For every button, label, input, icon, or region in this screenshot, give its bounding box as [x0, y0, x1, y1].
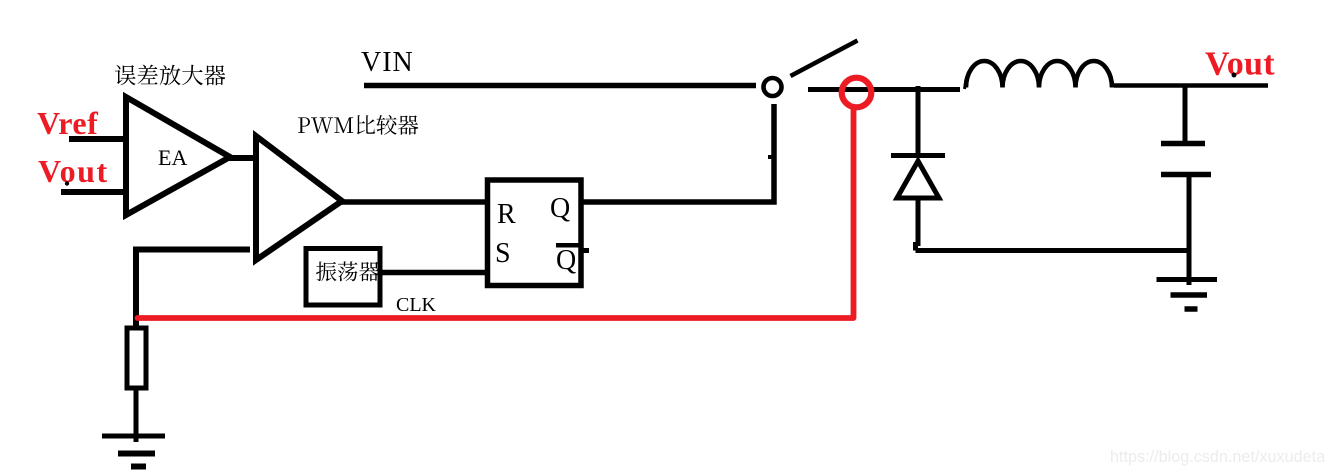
svg-text:R: R: [497, 199, 516, 230]
svg-text:Q: Q: [556, 245, 576, 276]
switch pole node (circle): [764, 78, 782, 96]
oscillator box 振荡器: [306, 249, 380, 306]
svg-text:S: S: [495, 238, 511, 269]
node sense point (red circle): [842, 78, 872, 108]
wire Vref input: [69, 136, 126, 142]
label CLK: [396, 294, 437, 316]
svg-text:CLK: CLK: [396, 294, 437, 316]
label VIN: [361, 47, 414, 78]
wire Vout feedback input: [61, 189, 126, 195]
wire node to diode: [916, 86, 921, 158]
svg-text:Vout: Vout: [1205, 46, 1275, 83]
pin label S: [495, 238, 511, 269]
svg-text:VIN: VIN: [361, 47, 414, 78]
svg-text:Vref: Vref: [37, 105, 98, 141]
resistor R1: [127, 328, 146, 388]
wire switch throw to inductor node: [808, 87, 960, 92]
switch blade: [791, 41, 858, 77]
SR latch U3 box: [488, 180, 582, 286]
wire Q output to switch gate: [581, 104, 774, 202]
pin label R: [497, 199, 516, 230]
svg-text:EA: EA: [158, 145, 187, 170]
wire PWM comparator inverting input (ramp): [136, 250, 250, 331]
watermark: [1110, 448, 1325, 466]
svg-text:Q: Q: [550, 193, 570, 224]
ground (right): [1157, 250, 1218, 309]
pin label Q-bar: [556, 243, 589, 276]
node Vref label: [37, 105, 98, 141]
wire EA output to PWM comparator: [227, 155, 256, 161]
wire oscillator output to S input (CLK): [380, 270, 487, 276]
node Vout label (feedback): [38, 153, 109, 189]
wire bottom return: [916, 242, 1192, 251]
svg-text:Vout: Vout: [38, 153, 109, 189]
wire node to capacitor: [1183, 86, 1188, 141]
capacitor C1: [1161, 144, 1211, 251]
wire VIN rail: [364, 83, 756, 89]
pin label Q: [550, 193, 570, 224]
node Vout label (output): [1205, 46, 1275, 83]
inductor L1: [965, 61, 1113, 89]
wire feedback (red) ramp sense: [138, 108, 854, 318]
wire PWM output to R input: [340, 199, 487, 205]
ground (left): [102, 436, 165, 467]
op-amp U1 EA triangle: [126, 97, 230, 215]
wire resistor to ground: [134, 388, 139, 438]
label 误差放大器 (error amplifier): [115, 65, 226, 86]
wire inductor to output: [1114, 83, 1268, 88]
svg-text:https://blog.csdn.net/xuxudeta: https://blog.csdn.net/xuxudeta: [1110, 448, 1325, 466]
label PWM比较器 (PWM comparator): [298, 115, 418, 135]
diode D1 (freewheeling): [891, 156, 945, 247]
op-amp U2 PWM comparator triangle: [256, 136, 342, 260]
